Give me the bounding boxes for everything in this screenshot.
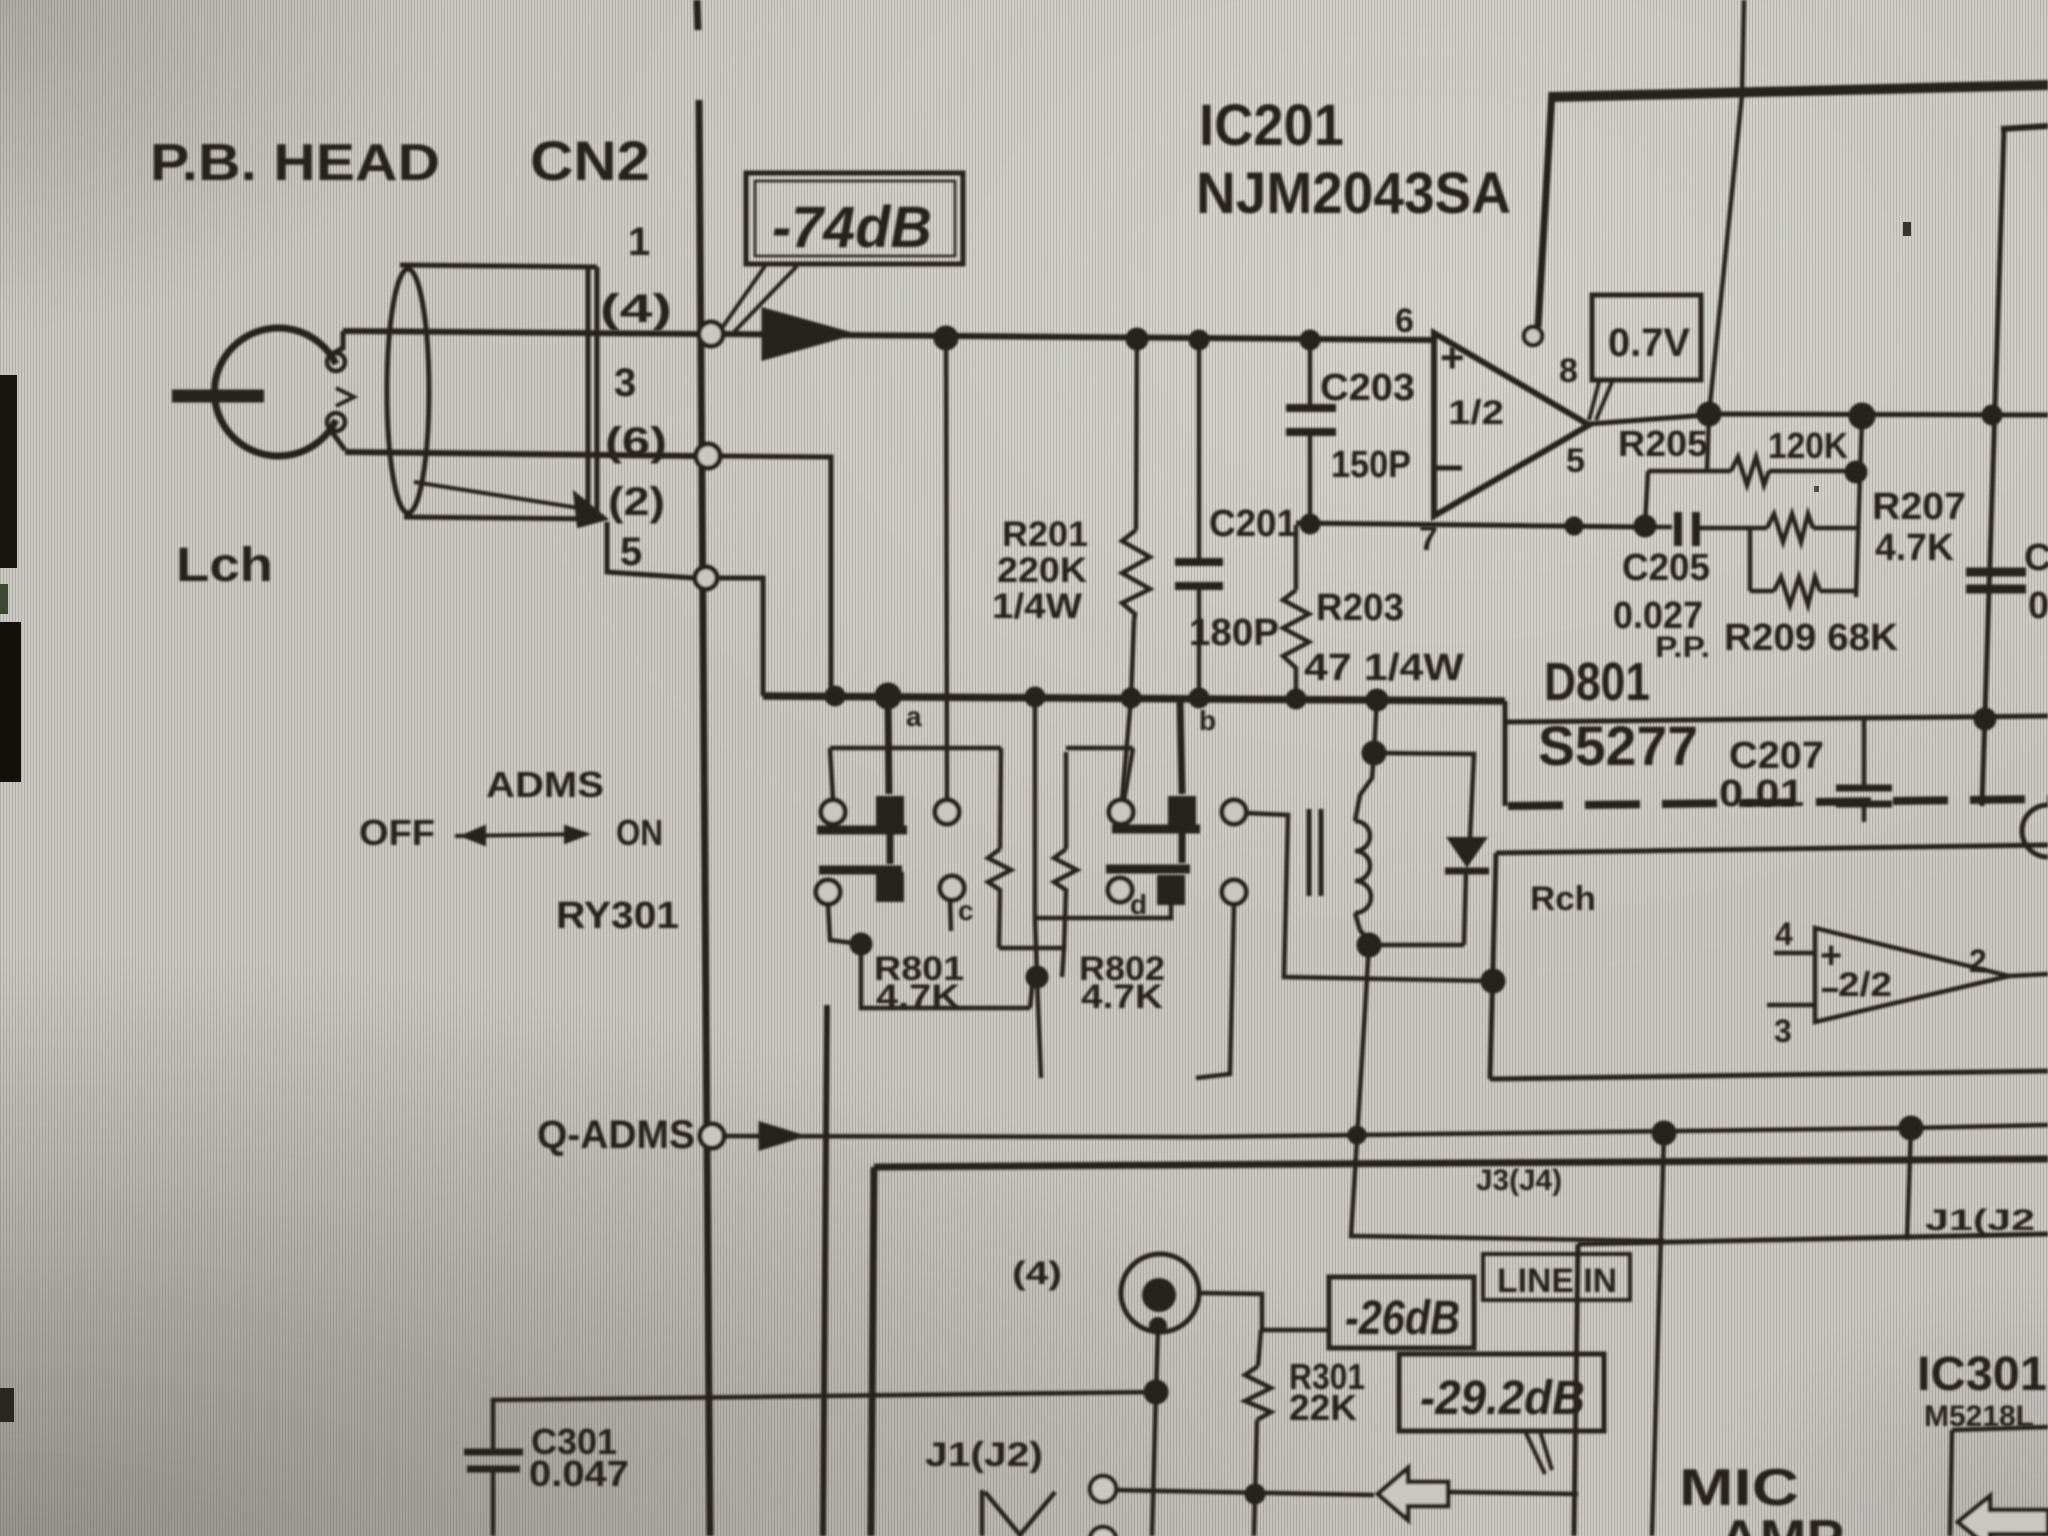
svg-text:3: 3 <box>614 361 636 405</box>
svg-text:1/4W: 1/4W <box>992 587 1082 626</box>
svg-text:ON: ON <box>616 812 663 853</box>
svg-text:J3(J4): J3(J4) <box>1476 1164 1562 1197</box>
svg-text:Lch: Lch <box>176 539 273 592</box>
svg-text:6: 6 <box>1395 302 1414 340</box>
svg-text:-74dB: -74dB <box>772 195 932 260</box>
svg-text:4.7K: 4.7K <box>1875 527 1955 569</box>
svg-text:C207: C207 <box>1729 735 1824 777</box>
svg-text:(4): (4) <box>600 287 672 331</box>
svg-text:RY301: RY301 <box>556 895 679 937</box>
svg-text:7: 7 <box>1419 520 1438 558</box>
svg-text:150P: 150P <box>1331 444 1411 486</box>
svg-text:CN2: CN2 <box>530 129 650 192</box>
svg-text:ADMS: ADMS <box>486 764 604 805</box>
svg-text:1/2: 1/2 <box>1448 394 1504 432</box>
svg-text:d: d <box>1130 889 1147 920</box>
svg-text:-26dB: -26dB <box>1345 1292 1460 1345</box>
svg-text:LINE IN: LINE IN <box>1497 1262 1617 1300</box>
svg-text:220K: 220K <box>997 551 1087 590</box>
svg-text:1: 1 <box>628 220 650 264</box>
svg-text:0.047: 0.047 <box>529 1453 629 1494</box>
svg-text:8: 8 <box>1559 352 1578 390</box>
svg-text:(6): (6) <box>605 420 667 464</box>
svg-text:R209 68K: R209 68K <box>1724 617 1899 659</box>
svg-text:IC201: IC201 <box>1199 93 1344 158</box>
svg-text:J1(J2): J1(J2) <box>925 1436 1043 1474</box>
svg-text:MIC: MIC <box>1679 1459 1799 1517</box>
svg-text:0.0: 0.0 <box>2028 585 2048 627</box>
svg-text:J1(J2: J1(J2 <box>1925 1204 2035 1237</box>
svg-text:c: c <box>958 895 974 926</box>
svg-text:47 1/4W: 47 1/4W <box>1304 647 1464 689</box>
svg-text:NJM2043SA: NJM2043SA <box>1196 161 1511 226</box>
svg-text:2: 2 <box>1969 943 1987 979</box>
svg-text:a: a <box>906 701 922 732</box>
svg-text:4.7K: 4.7K <box>876 978 961 1016</box>
svg-text:P.B. HEAD: P.B. HEAD <box>150 134 440 192</box>
svg-text:180P: 180P <box>1189 612 1279 654</box>
svg-text:P.P.: P.P. <box>1655 631 1710 664</box>
svg-text:OFF: OFF <box>359 812 435 853</box>
svg-text:S5277: S5277 <box>1538 714 1698 777</box>
svg-text:(2): (2) <box>608 480 665 524</box>
svg-text:4: 4 <box>1775 916 1793 952</box>
svg-text:C201: C201 <box>1209 503 1297 545</box>
svg-text:C205: C205 <box>1622 547 1710 589</box>
svg-text:22K: 22K <box>1289 1387 1357 1428</box>
svg-text:IC301: IC301 <box>1917 1348 2047 1401</box>
svg-text:+: + <box>1440 334 1465 381</box>
svg-text:b: b <box>1199 705 1216 736</box>
svg-text:R203: R203 <box>1316 587 1404 629</box>
svg-text:5: 5 <box>1566 442 1585 480</box>
svg-text:D801: D801 <box>1544 652 1650 712</box>
svg-text:C2: C2 <box>2024 537 2048 579</box>
svg-text:5: 5 <box>620 530 642 574</box>
svg-text:M5218L: M5218L <box>1924 1400 2034 1433</box>
svg-text:R205: R205 <box>1618 423 1708 464</box>
svg-text:0.7V: 0.7V <box>1608 321 1690 365</box>
svg-text:120K: 120K <box>1768 425 1848 466</box>
svg-text:2/2: 2/2 <box>1838 966 1892 1004</box>
svg-text:Rch: Rch <box>1530 880 1596 918</box>
svg-text:(4): (4) <box>1012 1255 1062 1291</box>
svg-text:0.01: 0.01 <box>1719 773 1804 815</box>
svg-text:Q-ADMS: Q-ADMS <box>537 1113 695 1157</box>
svg-text:C203: C203 <box>1320 367 1415 409</box>
svg-text:3: 3 <box>1774 1013 1792 1049</box>
svg-text:R201: R201 <box>1002 515 1088 554</box>
svg-text:4.7K: 4.7K <box>1081 978 1163 1016</box>
svg-text:AMP: AMP <box>1719 1510 1844 1536</box>
svg-text:-29.2dB: -29.2dB <box>1420 1372 1585 1425</box>
svg-text:R207: R207 <box>1872 486 1966 528</box>
